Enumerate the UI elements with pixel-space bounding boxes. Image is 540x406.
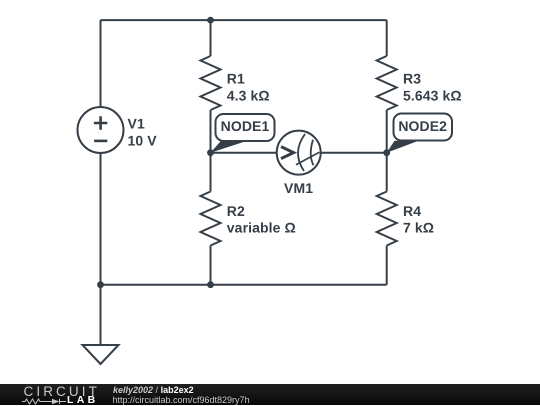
- svg-text:V1: V1: [128, 115, 145, 131]
- label R4 7 kOhm: [403, 203, 434, 236]
- label VM1: [284, 180, 313, 196]
- label R3 5.643 kOhm: [403, 70, 462, 103]
- node NODE2 flag: [387, 114, 452, 153]
- junction dot NODE1: [207, 149, 214, 156]
- wire R3 top lead: [386, 20, 388, 56]
- junction dot NODE2: [383, 149, 390, 156]
- voltmeter VM1: [277, 131, 321, 175]
- svg-text:VM1: VM1: [284, 180, 313, 196]
- footer credit line: [113, 386, 194, 395]
- wire R4 bottom lead: [386, 246, 388, 285]
- svg-text:R2: R2: [227, 203, 245, 219]
- footer bar: [0, 384, 540, 405]
- wire R3 bottom lead to NODE2 junction: [386, 110, 388, 153]
- wire voltmeter to NODE2 junction: [321, 152, 387, 154]
- svg-text:4.3 kΩ: 4.3 kΩ: [227, 87, 270, 103]
- wire NODE1 to voltmeter: [211, 152, 277, 154]
- wire R1 bottom lead to NODE1 junction: [210, 110, 212, 153]
- wire R4 top lead: [386, 153, 388, 192]
- CircuitLab logo LAB: [67, 396, 98, 405]
- ground: [83, 345, 119, 364]
- node NODE1 flag: [211, 114, 275, 153]
- label R2 variable Ohm: [227, 203, 296, 236]
- resistor R2: [201, 192, 221, 246]
- svg-text:7 kΩ: 7 kΩ: [403, 220, 434, 236]
- wire top from V1 to R3 branch: [101, 19, 387, 21]
- label R1 4.3 kOhm: [227, 70, 270, 103]
- wire bottom rail: [101, 284, 387, 286]
- wire V1 bottom lead down to ground rail: [100, 153, 102, 285]
- svg-text:R1: R1: [227, 70, 245, 86]
- svg-text:10 V: 10 V: [128, 132, 158, 148]
- resistor R4: [377, 192, 397, 246]
- wire R2 top lead: [210, 153, 212, 192]
- junction dot ground rail: [97, 281, 104, 288]
- wire ground stem: [100, 285, 102, 345]
- svg-text:5.643 kΩ: 5.643 kΩ: [403, 87, 462, 103]
- svg-text:variable Ω: variable Ω: [227, 220, 296, 236]
- CircuitLab logo resistor-diode glyph: [22, 398, 67, 405]
- CircuitLab logo wordmark: [24, 387, 100, 396]
- junction dot top R1: [207, 17, 214, 24]
- wire R2 bottom lead: [210, 246, 212, 285]
- footer url line: [113, 396, 250, 405]
- junction dot bottom R2: [207, 281, 214, 288]
- svg-text:NODE1: NODE1: [221, 118, 270, 134]
- label V1 10 V: [128, 115, 158, 148]
- wire left vertical V1 top lead: [100, 20, 102, 107]
- resistor R1: [201, 56, 221, 110]
- svg-text:R4: R4: [403, 203, 421, 219]
- svg-text:NODE2: NODE2: [398, 118, 447, 134]
- voltage source V1: [78, 107, 124, 153]
- wire R1 top lead: [210, 20, 212, 56]
- svg-text:R3: R3: [403, 70, 421, 86]
- resistor R3: [377, 56, 397, 110]
